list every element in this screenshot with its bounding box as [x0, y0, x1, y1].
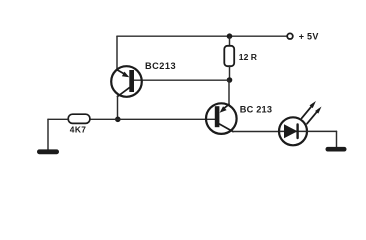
wire: R1 left to corner: [48, 118, 69, 120]
wire: corner down to left ground: [47, 119, 49, 149]
svg-text:BC213: BC213: [145, 61, 176, 71]
svg-text:+ 5V: + 5V: [299, 32, 319, 42]
LED D1: [279, 101, 322, 145]
wire: R2 top stub: [229, 36, 231, 46]
wire: junction down to Q2 emitter: [228, 80, 230, 105]
label: 4K7: [70, 125, 87, 135]
wire: +5V top rail: [117, 35, 287, 37]
terminal: +5V open circle: [287, 33, 293, 39]
label: BC213 (Q1): [145, 61, 176, 71]
wire: Q2 collector to LED: [233, 131, 280, 133]
label: BC 213 (Q2): [240, 105, 272, 115]
transistor Q2 BC213: [206, 103, 237, 134]
svg-text:12 R: 12 R: [239, 52, 258, 62]
wire: LED cathode to right corner: [307, 130, 337, 132]
label: 12 R: [239, 52, 258, 62]
svg-text:BC 213: BC 213: [240, 105, 272, 115]
svg-text:4K7: 4K7: [70, 125, 87, 135]
node: junction of +5V rail and R2 top: [227, 33, 233, 39]
ground (right): [326, 147, 347, 152]
node: junction of R2 bottom, Q1 base, Q2 emitter: [227, 77, 233, 83]
wire: Q1 base to junction: [134, 79, 230, 81]
resistor R1 4K7 body: [68, 114, 90, 123]
wire: R2 bottom stub: [229, 66, 231, 80]
wire: top-left corner down to Q1 emitter: [116, 36, 118, 70]
transistor Q1 BC213: [111, 66, 142, 97]
node: junction of Q1 collector, R1, Q2 base: [115, 117, 121, 123]
label: + 5V: [299, 32, 319, 42]
ground (left): [37, 149, 59, 154]
resistor R2 12R body: [224, 46, 234, 66]
wire: corner down to right ground: [336, 131, 338, 147]
wire: base row from R1 to Q2: [90, 118, 215, 120]
wire: Q1 collector down to row: [117, 96, 119, 119]
